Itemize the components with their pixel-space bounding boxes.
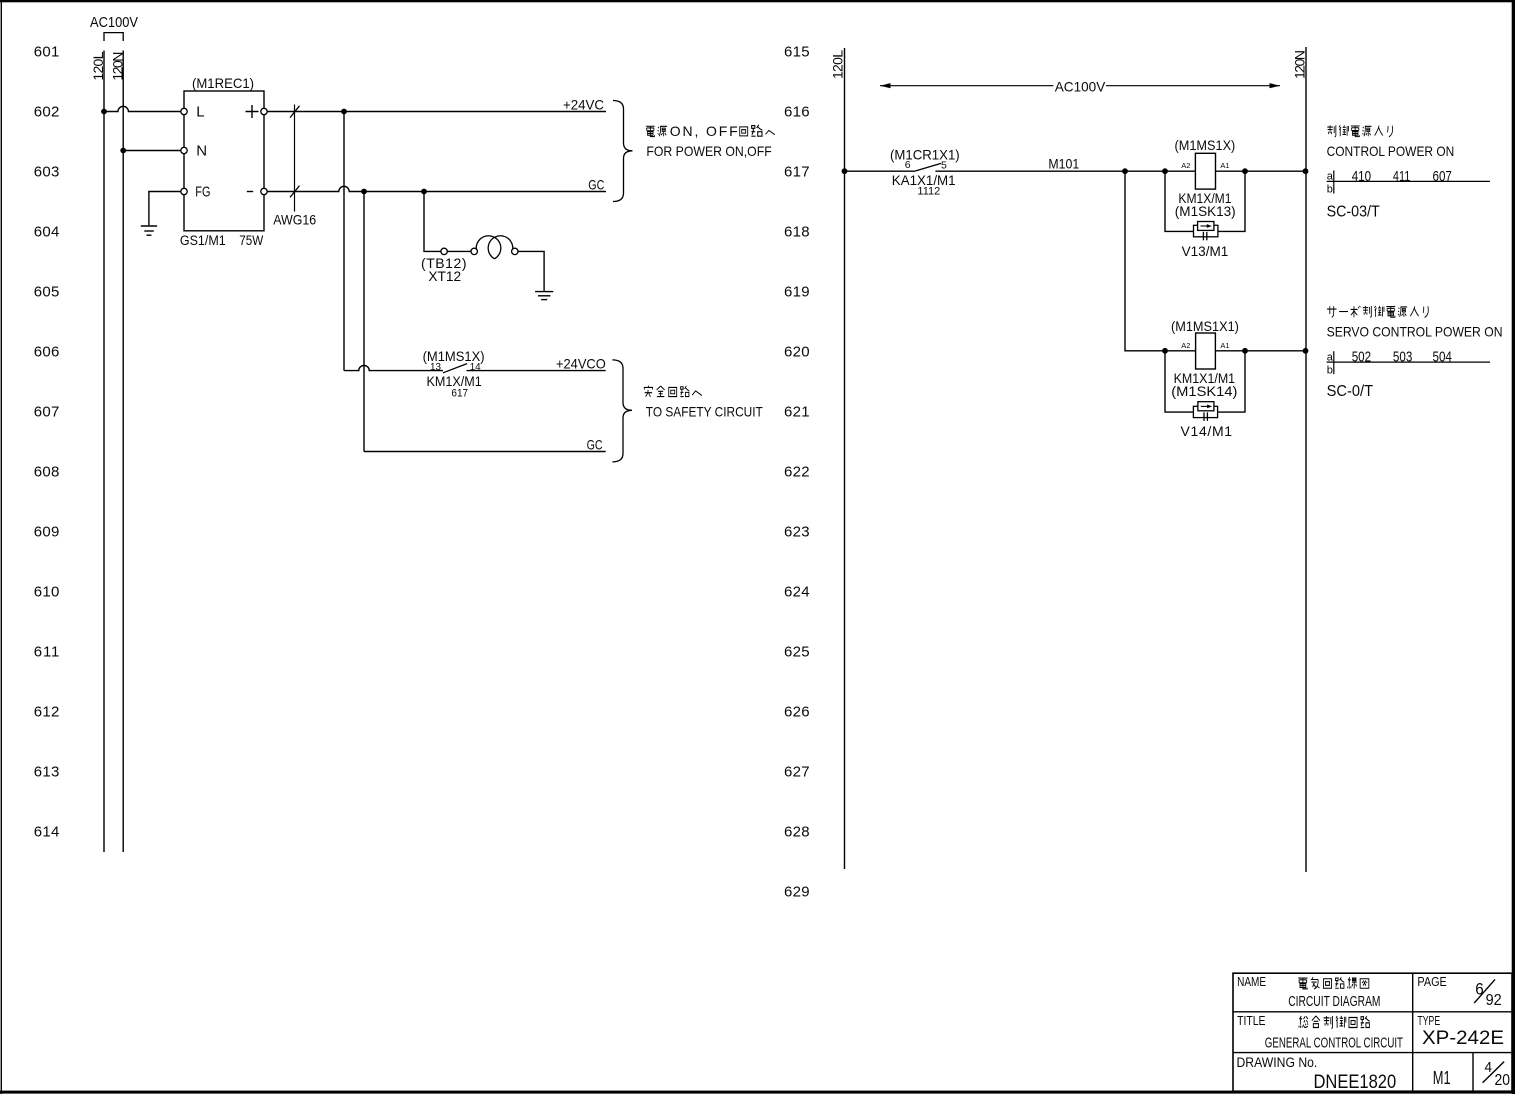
svg-text:621: 621 bbox=[784, 404, 810, 421]
svg-text:614: 614 bbox=[34, 824, 60, 841]
title block: DRAWING No. cell bbox=[1237, 1055, 1397, 1093]
svg-text:613: 613 bbox=[34, 764, 60, 781]
wire: +24V branch vertical bbox=[343, 112, 345, 371]
line number 624 bbox=[784, 584, 810, 601]
label M101 bbox=[1048, 156, 1079, 172]
AC100V span arrow bbox=[880, 78, 1280, 94]
node GC label bbox=[588, 176, 604, 192]
wire XT12 to ground bbox=[518, 251, 544, 290]
svg-text:A1: A1 bbox=[1220, 161, 1229, 170]
line number 605 bbox=[34, 284, 60, 301]
svg-text:(M1SK14): (M1SK14) bbox=[1171, 383, 1237, 399]
svg-text:A1: A1 bbox=[1220, 341, 1229, 350]
line number 617 bbox=[784, 164, 810, 181]
svg-text:624: 624 bbox=[784, 584, 810, 601]
svg-text:623: 623 bbox=[784, 524, 810, 541]
svg-text:615: 615 bbox=[784, 44, 810, 61]
svg-text:504: 504 bbox=[1433, 349, 1452, 366]
svg-text:FOR POWER ON,OFF: FOR POWER ON,OFF bbox=[646, 143, 771, 159]
line number 618 bbox=[784, 224, 810, 241]
svg-text:607: 607 bbox=[1433, 168, 1452, 185]
line number 625 bbox=[784, 644, 810, 661]
line number 610 bbox=[34, 584, 60, 601]
svg-text:DRAWING No.: DRAWING No. bbox=[1237, 1055, 1318, 1070]
wire 602: 120L to rectifier L, hop over 120N bbox=[104, 106, 181, 111]
bus 120N (left) bbox=[109, 51, 125, 853]
svg-text:L: L bbox=[196, 103, 204, 120]
line number 611 bbox=[34, 644, 60, 661]
svg-text:AC100V: AC100V bbox=[90, 14, 138, 31]
coil KM1X1/M1 (M1MS1X1) bbox=[1171, 318, 1239, 399]
line number 606 bbox=[34, 344, 60, 361]
svg-text:SC-03/T: SC-03/T bbox=[1327, 203, 1380, 220]
svg-text:XP-242E: XP-242E bbox=[1422, 1028, 1504, 1049]
svg-text:A2: A2 bbox=[1181, 341, 1190, 350]
line number 616 bbox=[784, 104, 810, 121]
wire rung 617: coil to 120N bbox=[1216, 170, 1307, 172]
junction: varistor right (620) bbox=[1242, 348, 1248, 354]
contact KA1X1/M1 6-5 (M1CR1X1) bbox=[890, 146, 960, 197]
svg-text:612: 612 bbox=[34, 704, 60, 721]
line number 623 bbox=[784, 524, 810, 541]
label SC-0/T bbox=[1327, 383, 1374, 400]
line number 621 bbox=[784, 404, 810, 421]
junction GC to safety branch bbox=[361, 189, 367, 195]
wire: branch M101 down to rung 620 bbox=[1125, 171, 1196, 351]
svg-text:+24VCO: +24VCO bbox=[556, 355, 606, 371]
line number 603 bbox=[34, 164, 60, 181]
svg-text:627: 627 bbox=[784, 764, 810, 781]
wire +24VCO (line 606) with hop bbox=[344, 365, 443, 370]
line number 629 bbox=[784, 884, 810, 901]
brace: safety circuit bbox=[612, 360, 632, 462]
svg-text:625: 625 bbox=[784, 644, 810, 661]
ground (XT12) bbox=[535, 292, 553, 300]
svg-text:6: 6 bbox=[1475, 980, 1484, 999]
title block: PAGE cell 6/92 bbox=[1417, 974, 1501, 1009]
svg-text:PAGE: PAGE bbox=[1417, 974, 1447, 989]
svg-text:5: 5 bbox=[941, 159, 947, 171]
junction at 120N (620) bbox=[1303, 348, 1309, 354]
bus 120L (left) bbox=[90, 51, 106, 853]
svg-text:606: 606 bbox=[34, 344, 60, 361]
terminal XT12 b bbox=[471, 248, 477, 254]
svg-text:619: 619 bbox=[784, 284, 810, 301]
svg-text:629: 629 bbox=[784, 884, 810, 901]
svg-text:603: 603 bbox=[34, 164, 60, 181]
annotation: SERVO SEIGYO DENGEN IRI (servo control power on) bbox=[1327, 306, 1428, 318]
svg-text:120N: 120N bbox=[1292, 50, 1308, 79]
terminal XT12 a bbox=[441, 248, 447, 254]
title block bbox=[1233, 973, 1512, 1091]
svg-text:NAME: NAME bbox=[1237, 974, 1266, 989]
svg-text:608: 608 bbox=[34, 464, 60, 481]
label XT12 bbox=[428, 268, 461, 284]
wire GC safety (line 607) bbox=[364, 451, 606, 453]
bus 120N (right) bbox=[1292, 47, 1308, 872]
title block: sheet 4/20 bbox=[1483, 1059, 1510, 1089]
svg-text:GS1/M1: GS1/M1 bbox=[180, 233, 226, 248]
annotation: SERVO CONTROL POWER ON bbox=[1327, 323, 1503, 339]
line number 607 bbox=[34, 404, 60, 421]
bus 120L (right) bbox=[829, 48, 845, 869]
power supply rectifier GS1/M1 (M1REC1) bbox=[180, 75, 264, 248]
svg-text:14: 14 bbox=[470, 362, 481, 373]
svg-text:XT12: XT12 bbox=[428, 268, 461, 284]
wire XT12 a-b bbox=[447, 250, 471, 252]
junction: varistor left (620) bbox=[1162, 348, 1168, 354]
svg-text:609: 609 bbox=[34, 524, 60, 541]
line number 604 bbox=[34, 224, 60, 241]
wire rung 617: 120L to contact bbox=[845, 170, 915, 172]
annotation: DENGEN ON,OFF KAIRO E (to power on/off circuit) bbox=[646, 123, 775, 139]
terminal XT12 c bbox=[512, 248, 518, 254]
terminal FG bbox=[181, 188, 187, 194]
svg-text:V14/M1: V14/M1 bbox=[1181, 423, 1233, 439]
line number 601 bbox=[34, 44, 60, 61]
line number 628 bbox=[784, 824, 810, 841]
terminal + bbox=[261, 108, 267, 114]
svg-text:605: 605 bbox=[34, 284, 60, 301]
ground (FG) bbox=[141, 226, 157, 235]
svg-text:607: 607 bbox=[34, 404, 60, 421]
svg-text:(M1CR1X1): (M1CR1X1) bbox=[890, 146, 960, 162]
wire rung 617: contact to coil bbox=[935, 170, 1195, 172]
annotation: TO SAFETY CIRCUIT bbox=[646, 404, 763, 420]
svg-text:13: 13 bbox=[430, 362, 441, 373]
junction GC to XT12 branch bbox=[421, 189, 427, 195]
svg-text:610: 610 bbox=[34, 584, 60, 601]
svg-text:M101: M101 bbox=[1048, 156, 1079, 172]
terminal L bbox=[181, 108, 187, 114]
svg-text:411: 411 bbox=[1393, 168, 1410, 185]
title block: NAME cell bbox=[1237, 974, 1380, 1010]
surge suppressor V13/M1 bbox=[1182, 222, 1229, 259]
line number 626 bbox=[784, 704, 810, 721]
svg-text:b: b bbox=[1327, 364, 1333, 376]
svg-text:410: 410 bbox=[1352, 168, 1371, 185]
svg-text:20: 20 bbox=[1495, 1072, 1511, 1089]
svg-text:V13/M1: V13/M1 bbox=[1182, 243, 1229, 259]
svg-text:503: 503 bbox=[1393, 349, 1412, 366]
svg-text:SERVO CONTROL POWER ON: SERVO CONTROL POWER ON bbox=[1327, 323, 1503, 339]
line number 620 bbox=[784, 344, 810, 361]
svg-text:620: 620 bbox=[784, 344, 810, 361]
svg-text:SC-0/T: SC-0/T bbox=[1327, 383, 1374, 400]
svg-text:(M1SK13): (M1SK13) bbox=[1175, 203, 1236, 219]
surge suppressor V14/M1 bbox=[1181, 402, 1233, 440]
wire +24VC (line 602) bbox=[267, 111, 606, 113]
svg-text:6: 6 bbox=[905, 159, 911, 171]
varistor V13/M1 branch wires bbox=[1165, 171, 1245, 231]
wire gauge marks AWG16 bbox=[273, 105, 316, 228]
junction: varistor left (617) bbox=[1162, 168, 1168, 174]
svg-text:(M1MS1X): (M1MS1X) bbox=[1175, 137, 1236, 153]
svg-text:(M1MS1X1): (M1MS1X1) bbox=[1171, 318, 1239, 334]
annotation: CONTROL POWER ON bbox=[1327, 143, 1455, 159]
junction: branch to rung 620 bbox=[1122, 168, 1128, 174]
coil KM1X/M1 (M1MS1X) bbox=[1175, 137, 1236, 219]
svg-text:617: 617 bbox=[451, 388, 468, 400]
node GC label (safety) bbox=[587, 436, 603, 452]
wire: GC to XT12 bbox=[424, 192, 441, 252]
node +24VC label bbox=[563, 96, 604, 112]
terminal - bbox=[261, 188, 267, 194]
svg-text:GC: GC bbox=[587, 436, 603, 452]
svg-text:TITLE: TITLE bbox=[1237, 1013, 1266, 1028]
svg-text:616: 616 bbox=[784, 104, 810, 121]
svg-text:AC100V: AC100V bbox=[1055, 78, 1106, 94]
svg-text:120L: 120L bbox=[90, 51, 106, 80]
svg-text:75W: 75W bbox=[239, 233, 263, 248]
svg-text:DNEE1820: DNEE1820 bbox=[1314, 1071, 1397, 1093]
svg-text:626: 626 bbox=[784, 704, 810, 721]
svg-text:601: 601 bbox=[34, 44, 60, 61]
node +24VCO label bbox=[556, 355, 606, 371]
svg-text:GENERAL CONTROL CIRCUIT: GENERAL CONTROL CIRCUIT bbox=[1265, 1035, 1403, 1052]
annotation: ANZEN KAIRO E (to safety circuit) bbox=[644, 386, 702, 397]
svg-text:N: N bbox=[196, 142, 207, 159]
svg-text:604: 604 bbox=[34, 224, 60, 241]
svg-text:M1: M1 bbox=[1433, 1068, 1451, 1088]
varistor V14/M1 branch wires bbox=[1165, 351, 1245, 412]
svg-text:+24VC: +24VC bbox=[563, 96, 604, 112]
svg-text:b: b bbox=[1327, 184, 1333, 196]
svg-text:GC: GC bbox=[588, 176, 604, 192]
svg-text:92: 92 bbox=[1486, 992, 1502, 1009]
line number 615 bbox=[784, 44, 810, 61]
wire rung 620: coil to 120N bbox=[1215, 350, 1306, 352]
title block: TYPE cell XP-242E bbox=[1417, 1013, 1504, 1049]
svg-text:KM1X/M1: KM1X/M1 bbox=[427, 373, 482, 389]
junction on 120L line 602 bbox=[101, 109, 107, 115]
label SC-03/T bbox=[1327, 203, 1380, 220]
line number 622 bbox=[784, 464, 810, 481]
svg-text:618: 618 bbox=[784, 224, 810, 241]
svg-text:120N: 120N bbox=[109, 52, 125, 81]
line number 613 bbox=[34, 764, 60, 781]
AC100V source label and bracket bbox=[90, 14, 138, 41]
wire FG to ground bbox=[149, 192, 181, 226]
svg-text:TO SAFETY CIRCUIT: TO SAFETY CIRCUIT bbox=[646, 404, 763, 420]
annotation: FOR POWER ON,OFF bbox=[646, 143, 771, 159]
wire contact to +24VCO bbox=[467, 370, 606, 372]
svg-text:CONTROL POWER ON: CONTROL POWER ON bbox=[1327, 143, 1455, 159]
title block: TITLE cell bbox=[1237, 1013, 1403, 1051]
svg-text:TYPE: TYPE bbox=[1417, 1013, 1440, 1028]
svg-text:4: 4 bbox=[1485, 1059, 1493, 1076]
svg-text:1112: 1112 bbox=[917, 186, 940, 198]
label (TB12) bbox=[421, 255, 467, 271]
twisted wire loops bbox=[476, 236, 513, 259]
wire: 120N to rectifier N bbox=[123, 150, 181, 152]
title block: sheet M1 bbox=[1433, 1068, 1451, 1088]
svg-text:602: 602 bbox=[34, 104, 60, 121]
junction on 120N bbox=[120, 148, 126, 154]
annotation: SEIGYO DENGEN IRI (control power on) bbox=[1327, 125, 1392, 137]
svg-text:617: 617 bbox=[784, 164, 810, 181]
junction rung617 at 120L bbox=[842, 168, 848, 174]
cross-reference line a/b 410 411 607 bbox=[1327, 168, 1490, 196]
line number 619 bbox=[784, 284, 810, 301]
contact KM1X/M1 13-14 (M1MS1X) bbox=[423, 348, 485, 400]
line number 627 bbox=[784, 764, 810, 781]
line number 612 bbox=[34, 704, 60, 721]
line number 614 bbox=[34, 824, 60, 841]
wire GC (line 603) with hop bbox=[267, 186, 606, 191]
svg-text:622: 622 bbox=[784, 464, 810, 481]
svg-text:502: 502 bbox=[1352, 349, 1371, 366]
cross-reference line a/b 502 503 504 bbox=[1327, 349, 1490, 377]
svg-text:FG: FG bbox=[195, 183, 210, 200]
junction +24VC branch bbox=[341, 109, 347, 115]
svg-text:120L: 120L bbox=[829, 50, 845, 79]
svg-text:611: 611 bbox=[34, 644, 60, 661]
wire: GC branch vertical bbox=[363, 192, 365, 452]
svg-text:AWG16: AWG16 bbox=[273, 212, 316, 228]
line number 608 bbox=[34, 464, 60, 481]
line number 609 bbox=[34, 524, 60, 541]
svg-text:CIRCUIT DIAGRAM: CIRCUIT DIAGRAM bbox=[1288, 993, 1380, 1010]
line number 602 bbox=[34, 104, 60, 121]
svg-text:(M1REC1): (M1REC1) bbox=[192, 75, 254, 91]
junction: varistor right (617) bbox=[1242, 168, 1248, 174]
junction at 120N (617) bbox=[1303, 168, 1309, 174]
terminal N bbox=[181, 147, 187, 153]
svg-text:A2: A2 bbox=[1181, 161, 1190, 170]
svg-text:628: 628 bbox=[784, 824, 810, 841]
brace: power on/off circuit bbox=[613, 101, 633, 202]
